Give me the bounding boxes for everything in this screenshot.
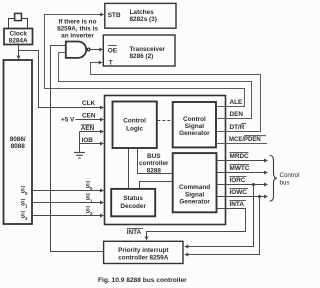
- svg-text:Fig. 10.9 8288 bus controller: Fig. 10.9 8288 bus controller: [98, 277, 187, 284]
- node CEN +5V: [61, 112, 104, 123]
- svg-text:DEN: DEN: [230, 111, 244, 118]
- svg-text:Logic: Logic: [126, 126, 143, 133]
- wire IOWC: [217, 189, 269, 199]
- note inverter annotation: [57, 19, 98, 40]
- svg-text:an inverter: an inverter: [61, 33, 94, 40]
- wire 8259A to NAND input: [51, 46, 104, 252]
- svg-text:8086/: 8086/: [10, 136, 26, 143]
- node CLK: [19, 51, 105, 110]
- wire INTA: [145, 201, 247, 241]
- svg-text:IOB: IOB: [82, 137, 94, 144]
- wire DT/R to transceiver T: [91, 61, 261, 132]
- NAND gate U1: [66, 42, 90, 58]
- command signal generator block: [173, 153, 217, 212]
- control signal generator block: [173, 102, 216, 147]
- svg-text:Status: Status: [123, 195, 143, 202]
- wire DEN to NAND input: [59, 53, 252, 119]
- svg-text:controller 8259A: controller 8259A: [118, 255, 168, 262]
- node AEN: [80, 125, 105, 134]
- label S0 at 8288: [86, 182, 93, 191]
- label S2 at 8288: [86, 207, 93, 216]
- svg-text:1: 1: [25, 204, 28, 209]
- svg-text:Priority interrupt: Priority interrupt: [118, 247, 169, 254]
- wire control logic to command signal generator: [138, 148, 173, 174]
- svg-text:Clock: Clock: [9, 30, 27, 37]
- wire IORC: [217, 177, 269, 187]
- svg-text:Transceiver: Transceiver: [130, 46, 166, 53]
- wire S0 to status decoder: [32, 189, 104, 193]
- svg-text:8286 (2): 8286 (2): [130, 53, 154, 60]
- svg-text:BUS: BUS: [147, 153, 161, 160]
- wire IORC to 8259A: [184, 185, 253, 249]
- svg-text:IOWC: IOWC: [230, 189, 248, 196]
- svg-text:1: 1: [90, 199, 93, 204]
- svg-text:2: 2: [90, 211, 93, 216]
- wire ALE to STB: [45, 13, 245, 107]
- svg-text:MRDC: MRDC: [230, 153, 250, 160]
- svg-text:bus: bus: [280, 180, 290, 187]
- label S1 at 8288: [86, 194, 93, 203]
- svg-text:0: 0: [90, 186, 93, 191]
- interrupt controller 8259A: [104, 241, 183, 263]
- svg-text:AEN: AEN: [81, 125, 95, 132]
- svg-text:Signal: Signal: [185, 123, 204, 130]
- status decoder block: [111, 189, 155, 216]
- clock 8284A: [4, 29, 33, 45]
- junction dot IORC: [252, 183, 255, 186]
- wire NAND output to OE: [90, 48, 103, 52]
- svg-text:Generator: Generator: [179, 130, 210, 137]
- svg-text:STB: STB: [108, 12, 121, 19]
- node IOB: [80, 137, 105, 146]
- bus controller 8288 outer box: [105, 96, 226, 225]
- control bus brace: [270, 156, 300, 202]
- svg-text:Command: Command: [179, 184, 210, 191]
- svg-text:+5 V: +5 V: [61, 116, 75, 123]
- svg-text:Signal: Signal: [185, 191, 204, 198]
- svg-text:Generator: Generator: [179, 199, 210, 206]
- svg-text:INTA: INTA: [127, 229, 142, 236]
- svg-text:If there is no: If there is no: [59, 19, 97, 26]
- label S2 at CPU: [21, 212, 28, 221]
- svg-text:INTA: INTA: [230, 201, 245, 208]
- wire MCE/PDEN: [216, 136, 267, 144]
- wire S1 to status decoder: [32, 201, 104, 205]
- svg-text:ALE: ALE: [230, 99, 244, 106]
- svg-text:2: 2: [25, 216, 28, 221]
- svg-text:OE: OE: [108, 47, 118, 54]
- svg-text:0: 0: [25, 191, 28, 196]
- wire control logic to status decoder: [128, 148, 130, 189]
- svg-text:MCE/PDEN: MCE/PDEN: [229, 137, 261, 143]
- dashed wire control logic to CSG: [157, 120, 172, 122]
- svg-text:MWTC: MWTC: [230, 165, 250, 172]
- latches 8282s: [105, 3, 176, 28]
- junction dot IOWC: [258, 195, 261, 198]
- svg-text:IORC: IORC: [230, 177, 246, 184]
- label S0 at CPU: [21, 187, 28, 196]
- svg-text:controller: controller: [139, 160, 169, 167]
- svg-text:Latches: Latches: [130, 9, 155, 16]
- wire status decoder to command signal generator: [140, 182, 173, 189]
- crystal Y1: [9, 13, 28, 28]
- svg-text:Decoder: Decoder: [120, 203, 146, 210]
- svg-text:T: T: [109, 59, 113, 66]
- svg-text:8282s (3): 8282s (3): [130, 16, 157, 23]
- ground: [74, 132, 85, 159]
- transceiver 8286: [103, 35, 175, 66]
- wire MRDC: [217, 153, 269, 163]
- svg-text:8284A: 8284A: [9, 38, 28, 45]
- wire clock to 8086: [17, 45, 21, 60]
- wire IOWC to 8259A: [184, 197, 259, 257]
- svg-text:Control: Control: [183, 116, 206, 123]
- svg-text:Control: Control: [280, 172, 300, 179]
- svg-text:8088: 8088: [11, 143, 26, 150]
- label INTA at 8259A: [127, 228, 143, 236]
- wire S2 to status decoder: [32, 214, 104, 218]
- svg-text:Control: Control: [123, 118, 146, 125]
- svg-text:CEN: CEN: [82, 112, 96, 119]
- svg-text:CLK: CLK: [82, 100, 96, 107]
- control logic block: [113, 102, 157, 149]
- wire MWTC: [217, 165, 269, 175]
- svg-text:8259A, this is: 8259A, this is: [57, 26, 98, 33]
- label S1 at CPU: [21, 199, 28, 208]
- svg-text:DT/R: DT/R: [230, 124, 245, 131]
- CPU 8086/8088: [4, 60, 33, 224]
